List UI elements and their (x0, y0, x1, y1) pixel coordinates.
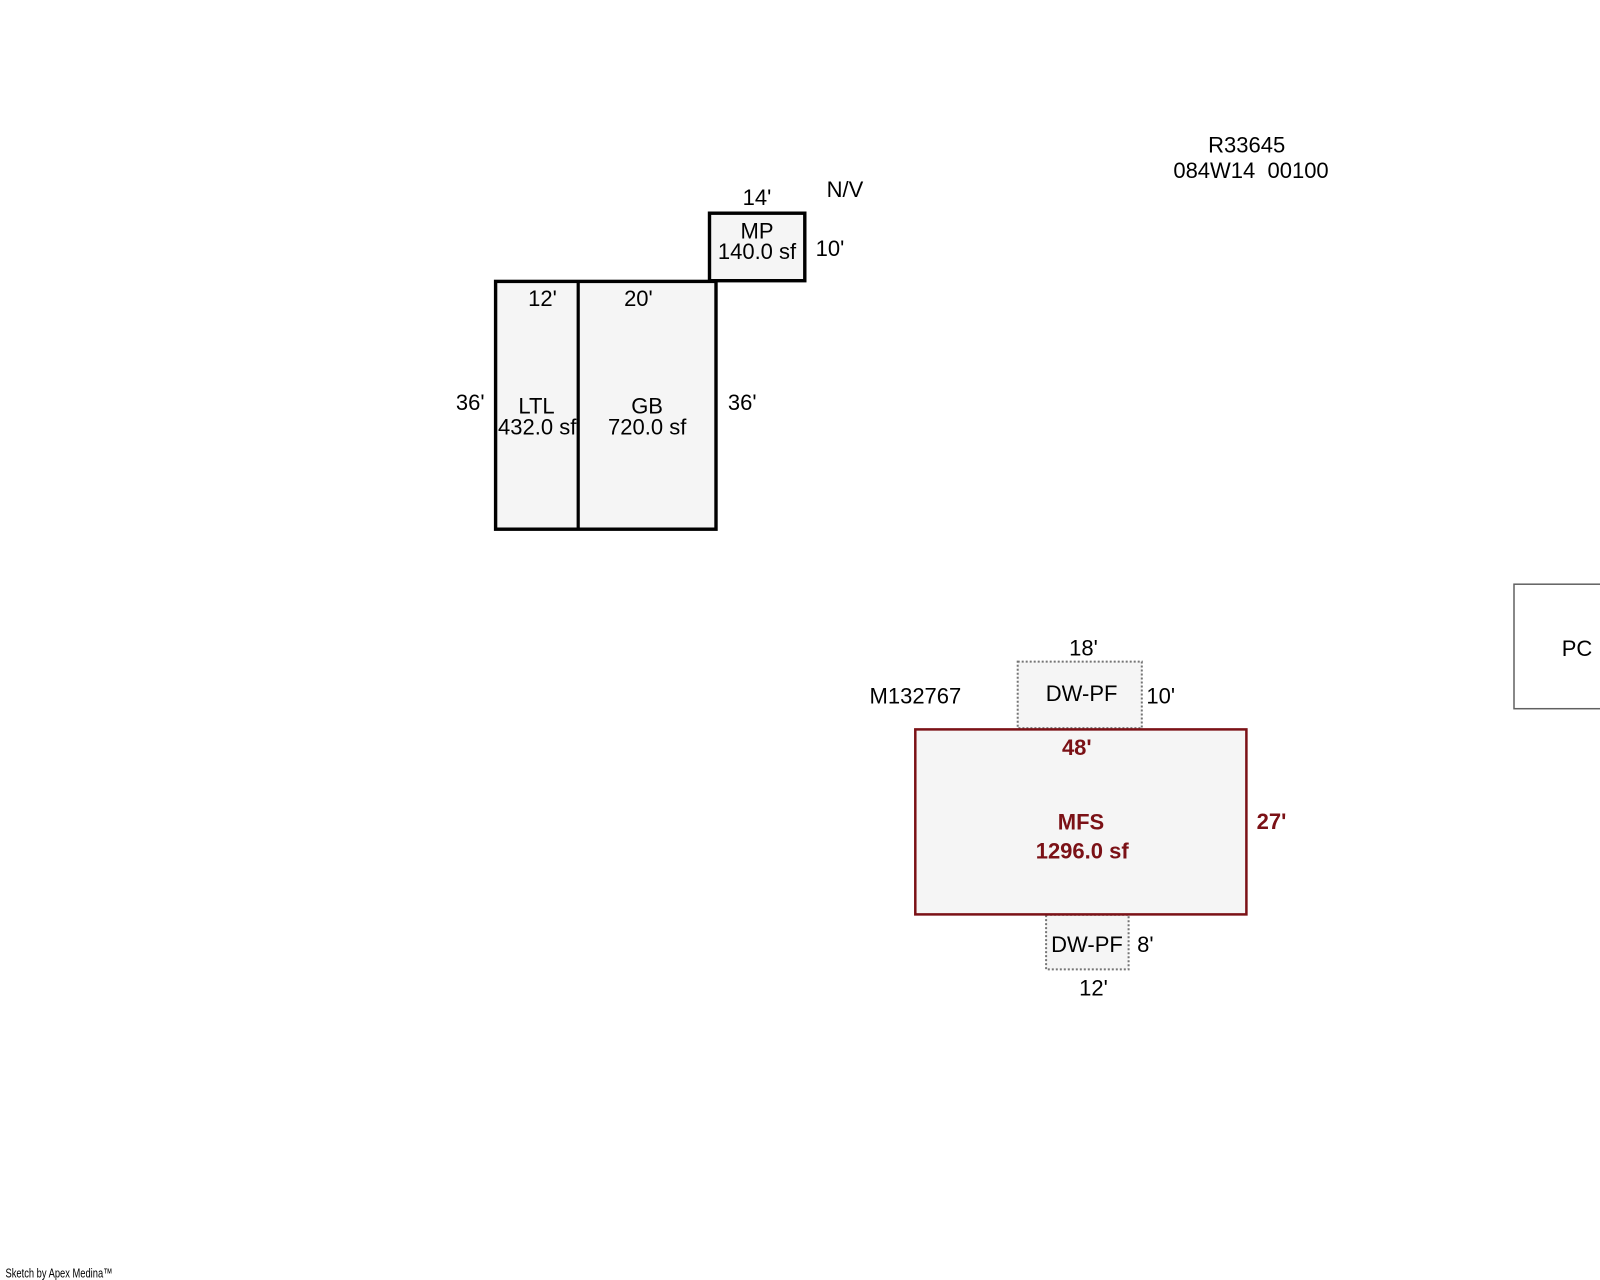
svg-text:N/V: N/V (827, 177, 864, 202)
svg-text:140.0 sf: 140.0 sf (718, 239, 797, 264)
svg-text:Sketch by Apex Medina™: Sketch by Apex Medina™ (6, 1266, 113, 1280)
building MP rect (710, 213, 805, 281)
svg-text:48': 48' (1062, 735, 1092, 760)
area PC rect (cut off at right edge) (1514, 584, 1600, 709)
svg-text:DW-PF: DW-PF (1046, 681, 1118, 706)
building LTL+GB rect (496, 281, 716, 529)
svg-text:1296.0 sf: 1296.0 sf (1036, 839, 1130, 864)
svg-text:R33645: R33645 (1208, 133, 1285, 158)
svg-text:432.0 sf: 432.0 sf (498, 414, 577, 439)
porch DW-PF top dashed rect (1018, 662, 1142, 729)
svg-text:12': 12' (528, 286, 557, 311)
svg-text:M132767: M132767 (870, 683, 962, 708)
porch DW-PF bottom dashed rect (1046, 915, 1129, 970)
svg-text:MFS: MFS (1058, 810, 1104, 835)
svg-text:20': 20' (624, 286, 653, 311)
svg-text:084W14 00100: 084W14 00100 (1173, 158, 1328, 183)
building MFS rect (915, 729, 1246, 914)
svg-text:PC: PC (1562, 636, 1593, 661)
svg-text:10': 10' (816, 236, 845, 261)
svg-text:14': 14' (743, 185, 772, 210)
wall divider LTL/GB (577, 281, 580, 529)
svg-text:720.0 sf: 720.0 sf (608, 414, 687, 439)
svg-text:27': 27' (1257, 809, 1287, 834)
svg-text:36': 36' (728, 390, 757, 415)
svg-text:12': 12' (1079, 975, 1108, 1000)
svg-text:18': 18' (1069, 636, 1098, 661)
svg-text:36': 36' (456, 390, 485, 415)
svg-text:10': 10' (1146, 684, 1175, 709)
svg-text:8': 8' (1137, 932, 1153, 957)
svg-text:DW-PF: DW-PF (1051, 932, 1123, 957)
